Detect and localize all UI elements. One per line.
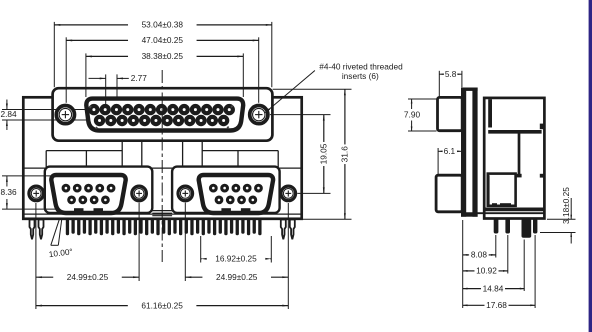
svg-text:31.6: 31.6 bbox=[340, 146, 350, 163]
svg-text:24.99±0.25: 24.99±0.25 bbox=[216, 272, 258, 282]
svg-text:61.16±0.25: 61.16±0.25 bbox=[141, 300, 183, 310]
svg-text:17.68: 17.68 bbox=[486, 300, 507, 310]
svg-text:2.84: 2.84 bbox=[1, 109, 18, 119]
svg-text:5.8: 5.8 bbox=[445, 69, 457, 79]
svg-text:19.05: 19.05 bbox=[318, 143, 328, 164]
svg-text:10.92: 10.92 bbox=[476, 266, 497, 276]
svg-text:#4-40 riveted threaded: #4-40 riveted threaded bbox=[319, 61, 403, 71]
svg-text:53.04±0.38: 53.04±0.38 bbox=[142, 20, 184, 30]
svg-text:8.36: 8.36 bbox=[1, 187, 18, 197]
svg-text:3.18±0.25: 3.18±0.25 bbox=[561, 187, 571, 224]
svg-text:47.04±0.25: 47.04±0.25 bbox=[142, 35, 184, 45]
svg-text:6.1: 6.1 bbox=[444, 146, 456, 156]
svg-text:8.08: 8.08 bbox=[471, 250, 488, 260]
svg-text:38.38±0.25: 38.38±0.25 bbox=[142, 51, 184, 61]
svg-text:2.77: 2.77 bbox=[131, 73, 148, 83]
svg-text:7.90: 7.90 bbox=[404, 109, 421, 119]
svg-text:16.92±0.25: 16.92±0.25 bbox=[215, 254, 257, 264]
svg-text:14.84: 14.84 bbox=[483, 283, 504, 293]
svg-text:24.99±0.25: 24.99±0.25 bbox=[67, 272, 109, 282]
svg-text:inserts (6): inserts (6) bbox=[342, 71, 379, 81]
